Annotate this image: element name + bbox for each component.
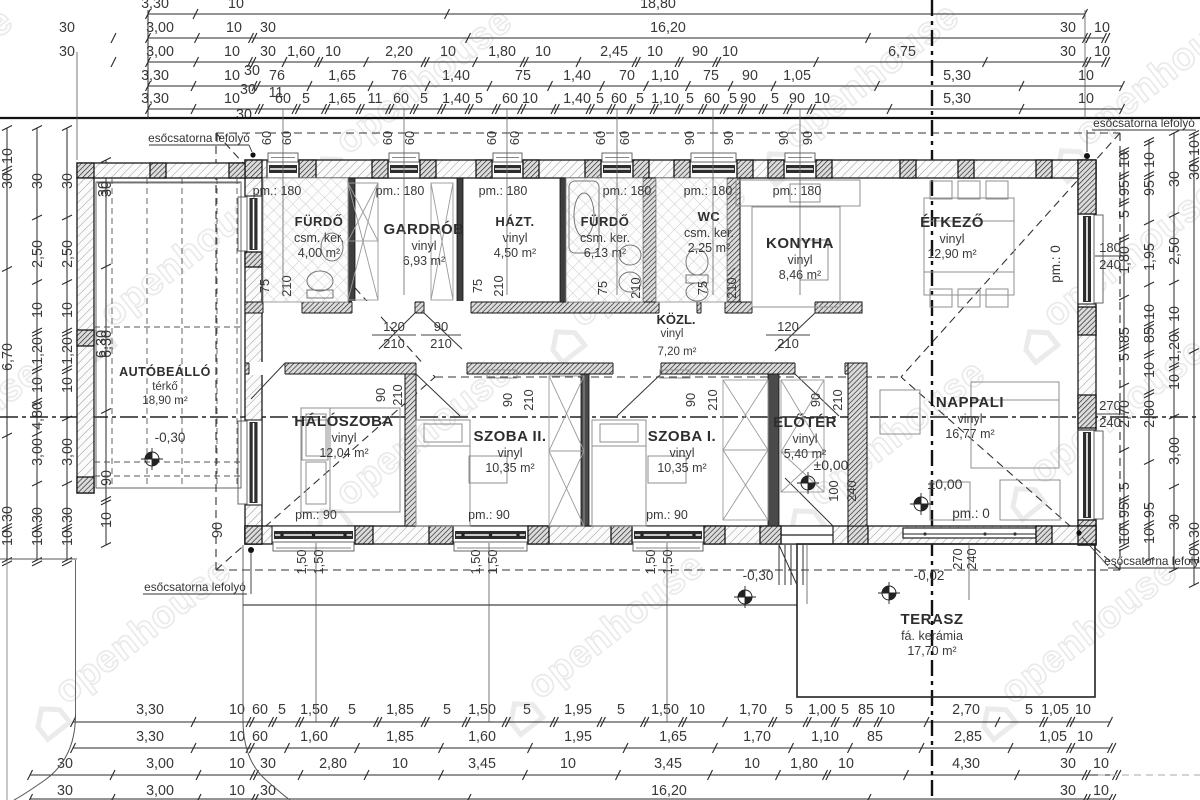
svg-text:esőcsatorna lefolyó: esőcsatorna lefolyó bbox=[148, 131, 250, 145]
svg-text:70: 70 bbox=[619, 68, 635, 84]
svg-text:90: 90 bbox=[434, 319, 448, 334]
svg-text:10: 10 bbox=[1117, 528, 1133, 544]
svg-text:3,00: 3,00 bbox=[30, 438, 46, 466]
svg-text:csm. ker.: csm. ker. bbox=[580, 231, 630, 245]
svg-text:10: 10 bbox=[1187, 140, 1200, 156]
svg-text:1,70: 1,70 bbox=[743, 729, 771, 745]
svg-text:100: 100 bbox=[826, 480, 841, 501]
svg-text:5: 5 bbox=[729, 91, 737, 107]
svg-text:pm.: 180: pm.: 180 bbox=[684, 184, 733, 198]
svg-text:10: 10 bbox=[60, 302, 76, 318]
svg-text:90: 90 bbox=[210, 522, 226, 538]
svg-text:90: 90 bbox=[692, 44, 708, 60]
svg-text:17,70 m²: 17,70 m² bbox=[907, 644, 956, 658]
svg-text:3,45: 3,45 bbox=[654, 756, 682, 772]
svg-text:vinyl: vinyl bbox=[502, 231, 527, 245]
svg-text:30: 30 bbox=[59, 44, 75, 60]
svg-text:1,95: 1,95 bbox=[564, 702, 592, 718]
svg-text:10: 10 bbox=[1075, 702, 1091, 718]
svg-text:1,20: 1,20 bbox=[30, 337, 46, 365]
svg-text:4,80: 4,80 bbox=[30, 402, 46, 430]
svg-text:3,30: 3,30 bbox=[136, 702, 164, 718]
svg-text:210: 210 bbox=[279, 275, 294, 296]
svg-text:210: 210 bbox=[383, 336, 405, 351]
svg-text:10: 10 bbox=[647, 44, 663, 60]
svg-text:90: 90 bbox=[808, 393, 823, 407]
svg-text:vinyl: vinyl bbox=[939, 232, 964, 246]
svg-text:210: 210 bbox=[430, 336, 452, 351]
svg-text:10: 10 bbox=[229, 783, 245, 799]
svg-text:10: 10 bbox=[229, 756, 245, 772]
svg-text:30: 30 bbox=[260, 756, 276, 772]
svg-text:60: 60 bbox=[393, 91, 409, 107]
svg-text:10: 10 bbox=[1077, 729, 1093, 745]
svg-text:30: 30 bbox=[244, 63, 260, 79]
svg-text:NAPPALI: NAPPALI bbox=[936, 394, 1004, 411]
svg-text:1,05: 1,05 bbox=[783, 68, 811, 84]
svg-text:30: 30 bbox=[60, 173, 76, 189]
svg-text:2,80: 2,80 bbox=[319, 756, 347, 772]
svg-text:4,00 m²: 4,00 m² bbox=[298, 246, 340, 260]
svg-text:210: 210 bbox=[724, 277, 739, 298]
svg-text:10: 10 bbox=[0, 530, 16, 546]
svg-text:210: 210 bbox=[705, 389, 720, 410]
svg-text:pm.: 180: pm.: 180 bbox=[773, 184, 822, 198]
svg-text:1,85: 1,85 bbox=[386, 729, 414, 745]
svg-text:5,30: 5,30 bbox=[943, 68, 971, 84]
svg-text:KÖZL.: KÖZL. bbox=[657, 312, 696, 327]
svg-text:75: 75 bbox=[470, 279, 485, 293]
svg-text:76: 76 bbox=[269, 68, 285, 84]
svg-text:3,30: 3,30 bbox=[136, 729, 164, 745]
svg-text:ELŐTÉR: ELŐTÉR bbox=[773, 413, 837, 431]
svg-text:90: 90 bbox=[789, 91, 805, 107]
svg-text:270: 270 bbox=[950, 548, 965, 569]
svg-text:210: 210 bbox=[628, 277, 643, 298]
svg-text:1,10: 1,10 bbox=[651, 68, 679, 84]
svg-text:1,00: 1,00 bbox=[808, 702, 836, 718]
svg-text:60: 60 bbox=[617, 131, 632, 145]
svg-text:1,80: 1,80 bbox=[488, 44, 516, 60]
svg-text:90: 90 bbox=[373, 388, 388, 402]
svg-text:210: 210 bbox=[491, 275, 506, 296]
svg-text:csm. ker.: csm. ker. bbox=[684, 226, 734, 240]
svg-text:esőcsatorna lefolyó: esőcsatorna lefolyó bbox=[1104, 554, 1200, 568]
svg-text:90: 90 bbox=[776, 131, 791, 145]
svg-text:1,50: 1,50 bbox=[300, 702, 328, 718]
svg-text:60: 60 bbox=[502, 91, 518, 107]
svg-text:10: 10 bbox=[440, 44, 456, 60]
svg-text:1,50: 1,50 bbox=[651, 702, 679, 718]
svg-text:2,20: 2,20 bbox=[385, 44, 413, 60]
svg-text:75: 75 bbox=[515, 68, 531, 84]
svg-text:5: 5 bbox=[617, 702, 625, 718]
svg-text:30: 30 bbox=[57, 783, 73, 799]
svg-text:60: 60 bbox=[380, 131, 395, 145]
svg-text:SZOBA I.: SZOBA I. bbox=[648, 428, 716, 445]
svg-text:10: 10 bbox=[1142, 362, 1158, 378]
svg-text:30: 30 bbox=[260, 20, 276, 36]
svg-text:60: 60 bbox=[279, 131, 294, 145]
svg-text:1,50: 1,50 bbox=[311, 550, 326, 575]
svg-text:1,60: 1,60 bbox=[287, 44, 315, 60]
svg-text:4,30: 4,30 bbox=[952, 756, 980, 772]
svg-text:76: 76 bbox=[391, 68, 407, 84]
svg-text:2,50: 2,50 bbox=[60, 240, 76, 268]
svg-text:1,20: 1,20 bbox=[60, 337, 76, 365]
svg-text:HÁZT.: HÁZT. bbox=[495, 214, 534, 229]
svg-text:10: 10 bbox=[224, 91, 240, 107]
svg-text:60: 60 bbox=[593, 131, 608, 145]
svg-text:5: 5 bbox=[771, 91, 779, 107]
svg-text:6,93 m²: 6,93 m² bbox=[403, 254, 445, 268]
svg-text:2,25 m²: 2,25 m² bbox=[688, 241, 730, 255]
svg-text:60: 60 bbox=[484, 131, 499, 145]
svg-text:5: 5 bbox=[348, 702, 356, 718]
svg-text:90: 90 bbox=[683, 393, 698, 407]
svg-text:18,80: 18,80 bbox=[640, 0, 676, 12]
svg-text:1,70: 1,70 bbox=[739, 702, 767, 718]
svg-text:vinyl: vinyl bbox=[957, 412, 982, 426]
svg-text:3,30: 3,30 bbox=[141, 91, 169, 107]
svg-text:1,85: 1,85 bbox=[386, 702, 414, 718]
svg-text:10,35 m²: 10,35 m² bbox=[485, 461, 534, 475]
svg-text:1,95: 1,95 bbox=[1142, 243, 1158, 271]
svg-text:10: 10 bbox=[838, 756, 854, 772]
svg-text:7,20 m²: 7,20 m² bbox=[658, 346, 697, 358]
svg-text:10: 10 bbox=[60, 377, 76, 393]
svg-text:90: 90 bbox=[721, 131, 736, 145]
svg-text:75: 75 bbox=[595, 281, 610, 295]
svg-text:30: 30 bbox=[1167, 171, 1183, 187]
svg-text:10: 10 bbox=[99, 512, 115, 528]
svg-text:10: 10 bbox=[522, 91, 538, 107]
svg-text:30: 30 bbox=[240, 82, 256, 98]
svg-text:210: 210 bbox=[777, 336, 799, 351]
svg-text:vinyl: vinyl bbox=[497, 446, 522, 460]
svg-text:pm.: 180: pm.: 180 bbox=[479, 184, 528, 198]
svg-text:10: 10 bbox=[0, 148, 16, 164]
svg-text:pm.: 0: pm.: 0 bbox=[952, 506, 990, 521]
svg-text:5,30: 5,30 bbox=[943, 91, 971, 107]
svg-text:5: 5 bbox=[302, 91, 310, 107]
svg-text:1,40: 1,40 bbox=[563, 91, 591, 107]
svg-text:11: 11 bbox=[269, 85, 284, 101]
svg-text:10: 10 bbox=[689, 702, 705, 718]
svg-text:1,65: 1,65 bbox=[328, 91, 356, 107]
svg-text:3,00: 3,00 bbox=[146, 20, 174, 36]
svg-text:pm.: 90: pm.: 90 bbox=[295, 508, 337, 522]
svg-text:10: 10 bbox=[1093, 756, 1109, 772]
svg-text:1,50: 1,50 bbox=[468, 702, 496, 718]
svg-text:1,50: 1,50 bbox=[660, 550, 675, 575]
svg-text:5: 5 bbox=[420, 91, 428, 107]
svg-text:10: 10 bbox=[744, 756, 760, 772]
svg-text:csm. ker.: csm. ker. bbox=[294, 231, 344, 245]
svg-text:TERASZ: TERASZ bbox=[901, 611, 964, 628]
svg-text:1,40: 1,40 bbox=[563, 68, 591, 84]
svg-text:3,00: 3,00 bbox=[1167, 437, 1183, 465]
svg-text:16,20: 16,20 bbox=[651, 783, 687, 799]
svg-text:FÜRDŐ: FÜRDŐ bbox=[295, 214, 344, 229]
svg-text:210: 210 bbox=[830, 389, 845, 410]
svg-text:10: 10 bbox=[722, 44, 738, 60]
svg-text:10: 10 bbox=[1142, 528, 1158, 544]
svg-text:-0,02: -0,02 bbox=[914, 568, 945, 583]
svg-text:vinyl: vinyl bbox=[792, 432, 817, 446]
svg-text:1,50: 1,50 bbox=[643, 550, 658, 575]
svg-text:1,50: 1,50 bbox=[468, 550, 483, 575]
svg-text:10: 10 bbox=[325, 44, 341, 60]
svg-text:2,50: 2,50 bbox=[1167, 237, 1183, 265]
svg-text:60: 60 bbox=[507, 131, 522, 145]
svg-text:30: 30 bbox=[260, 44, 276, 60]
svg-text:30: 30 bbox=[1060, 783, 1076, 799]
svg-text:30: 30 bbox=[1060, 20, 1076, 36]
svg-text:5: 5 bbox=[841, 702, 849, 718]
svg-text:240: 240 bbox=[844, 480, 859, 501]
svg-text:75: 75 bbox=[695, 281, 710, 295]
svg-text:±0,00: ±0,00 bbox=[814, 457, 849, 473]
svg-text:10: 10 bbox=[1167, 374, 1183, 390]
svg-text:AUTÓBEÁLLÓ: AUTÓBEÁLLÓ bbox=[119, 364, 211, 379]
svg-text:5: 5 bbox=[636, 91, 644, 107]
svg-text:1,05: 1,05 bbox=[1039, 729, 1067, 745]
svg-text:85: 85 bbox=[1117, 327, 1133, 343]
svg-text:18,90 m²: 18,90 m² bbox=[142, 395, 188, 407]
svg-text:120: 120 bbox=[777, 319, 799, 334]
svg-text:10: 10 bbox=[1078, 68, 1094, 84]
svg-text:30: 30 bbox=[236, 107, 252, 123]
svg-text:10: 10 bbox=[560, 756, 576, 772]
svg-text:30: 30 bbox=[59, 20, 75, 36]
svg-text:270: 270 bbox=[1099, 398, 1121, 413]
svg-text:90: 90 bbox=[800, 131, 815, 145]
svg-text:5: 5 bbox=[1117, 353, 1133, 361]
svg-text:±0,00: ±0,00 bbox=[928, 476, 963, 492]
svg-text:10: 10 bbox=[30, 530, 46, 546]
svg-text:240: 240 bbox=[1099, 415, 1121, 430]
svg-text:1,65: 1,65 bbox=[328, 68, 356, 84]
svg-text:240: 240 bbox=[1099, 257, 1121, 272]
svg-text:10: 10 bbox=[30, 377, 46, 393]
svg-text:10: 10 bbox=[1142, 152, 1158, 168]
svg-text:210: 210 bbox=[521, 389, 536, 410]
svg-text:vinyl: vinyl bbox=[411, 239, 436, 253]
svg-text:5: 5 bbox=[1117, 482, 1133, 490]
svg-text:95: 95 bbox=[1117, 502, 1133, 518]
svg-text:60: 60 bbox=[252, 702, 268, 718]
svg-text:180: 180 bbox=[1099, 240, 1121, 255]
svg-text:210: 210 bbox=[390, 384, 405, 405]
svg-text:30: 30 bbox=[1167, 514, 1183, 530]
svg-text:10: 10 bbox=[1167, 306, 1183, 322]
svg-text:pm.: 180: pm.: 180 bbox=[376, 184, 425, 198]
svg-text:85: 85 bbox=[867, 729, 883, 745]
svg-text:60: 60 bbox=[704, 91, 720, 107]
svg-text:5: 5 bbox=[1117, 210, 1133, 218]
svg-text:5: 5 bbox=[278, 702, 286, 718]
svg-text:5: 5 bbox=[596, 91, 604, 107]
svg-text:10: 10 bbox=[60, 530, 76, 546]
svg-text:12,90 m²: 12,90 m² bbox=[927, 247, 976, 261]
svg-text:10: 10 bbox=[30, 302, 46, 318]
svg-text:1,20: 1,20 bbox=[1167, 334, 1183, 362]
svg-text:5: 5 bbox=[475, 91, 483, 107]
svg-text:16,20: 16,20 bbox=[650, 20, 686, 36]
svg-text:1,80: 1,80 bbox=[790, 756, 818, 772]
svg-text:16,77 m²: 16,77 m² bbox=[945, 427, 994, 441]
svg-text:5: 5 bbox=[443, 702, 451, 718]
svg-text:pm.: 180: pm.: 180 bbox=[603, 184, 652, 198]
svg-text:120: 120 bbox=[383, 319, 405, 334]
svg-text:FÜRDŐ: FÜRDŐ bbox=[581, 214, 630, 229]
svg-text:1,10: 1,10 bbox=[651, 91, 679, 107]
svg-text:95: 95 bbox=[1142, 502, 1158, 518]
svg-text:85: 85 bbox=[1142, 327, 1158, 343]
svg-text:5: 5 bbox=[1025, 702, 1033, 718]
svg-text:30: 30 bbox=[1060, 756, 1076, 772]
svg-text:30: 30 bbox=[0, 506, 16, 522]
svg-text:10: 10 bbox=[1142, 304, 1158, 320]
svg-text:SZOBA II.: SZOBA II. bbox=[473, 428, 546, 445]
svg-text:12,04 m²: 12,04 m² bbox=[319, 446, 368, 460]
svg-text:10: 10 bbox=[1094, 44, 1110, 60]
svg-text:30: 30 bbox=[260, 783, 276, 799]
svg-text:10: 10 bbox=[392, 756, 408, 772]
svg-text:90: 90 bbox=[742, 68, 758, 84]
svg-text:-0,30: -0,30 bbox=[743, 568, 774, 583]
svg-text:10: 10 bbox=[229, 729, 245, 745]
svg-text:2,70: 2,70 bbox=[952, 702, 980, 718]
svg-text:-0,30: -0,30 bbox=[155, 430, 186, 445]
svg-text:2,80: 2,80 bbox=[1142, 400, 1158, 428]
svg-text:30: 30 bbox=[60, 507, 76, 523]
svg-text:5: 5 bbox=[785, 702, 793, 718]
svg-text:4,50 m²: 4,50 m² bbox=[494, 246, 536, 260]
svg-text:2,50: 2,50 bbox=[30, 240, 46, 268]
svg-text:1,50: 1,50 bbox=[485, 550, 500, 575]
svg-text:10: 10 bbox=[879, 702, 895, 718]
svg-text:2,45: 2,45 bbox=[600, 44, 628, 60]
svg-text:1,50: 1,50 bbox=[294, 550, 309, 575]
svg-text:5: 5 bbox=[686, 91, 694, 107]
svg-text:6,30: 6,30 bbox=[94, 330, 110, 358]
svg-text:30: 30 bbox=[1187, 522, 1200, 538]
svg-text:1,10: 1,10 bbox=[811, 729, 839, 745]
svg-text:75: 75 bbox=[257, 279, 272, 293]
svg-text:3,45: 3,45 bbox=[468, 756, 496, 772]
svg-text:1,40: 1,40 bbox=[442, 91, 470, 107]
svg-text:pm.: 0: pm.: 0 bbox=[1048, 245, 1063, 283]
svg-text:10: 10 bbox=[224, 68, 240, 84]
svg-text:esőcsatorna lefolyó: esőcsatorna lefolyó bbox=[1093, 116, 1195, 130]
svg-text:30: 30 bbox=[30, 507, 46, 523]
svg-text:10: 10 bbox=[814, 91, 830, 107]
svg-text:1,65: 1,65 bbox=[659, 729, 687, 745]
svg-text:pm.: 90: pm.: 90 bbox=[468, 508, 510, 522]
svg-text:30: 30 bbox=[0, 173, 16, 189]
svg-text:1,95: 1,95 bbox=[564, 729, 592, 745]
svg-text:95: 95 bbox=[1117, 180, 1133, 196]
svg-text:vinyl: vinyl bbox=[331, 431, 356, 445]
svg-text:vinyl: vinyl bbox=[660, 328, 683, 340]
svg-text:95: 95 bbox=[1142, 180, 1158, 196]
svg-text:6,13 m²: 6,13 m² bbox=[584, 246, 626, 260]
svg-text:pm.: 180: pm.: 180 bbox=[253, 184, 302, 198]
svg-text:3,00: 3,00 bbox=[146, 44, 174, 60]
svg-text:11: 11 bbox=[368, 91, 383, 107]
svg-text:90: 90 bbox=[99, 470, 115, 486]
svg-text:75: 75 bbox=[703, 68, 719, 84]
svg-text:1,05: 1,05 bbox=[1041, 702, 1069, 718]
svg-text:10: 10 bbox=[1093, 783, 1109, 799]
svg-text:6,70: 6,70 bbox=[0, 343, 16, 371]
svg-text:3,00: 3,00 bbox=[60, 438, 76, 466]
svg-text:10: 10 bbox=[224, 44, 240, 60]
svg-text:HÁLÓSZOBA: HÁLÓSZOBA bbox=[294, 412, 394, 430]
svg-text:3,30: 3,30 bbox=[141, 0, 169, 12]
svg-text:90: 90 bbox=[740, 91, 756, 107]
svg-text:90: 90 bbox=[500, 393, 515, 407]
svg-text:GARDRÓB: GARDRÓB bbox=[384, 220, 465, 238]
svg-text:85: 85 bbox=[858, 702, 874, 718]
svg-text:1,40: 1,40 bbox=[442, 68, 470, 84]
svg-text:10,35 m²: 10,35 m² bbox=[657, 461, 706, 475]
svg-text:10: 10 bbox=[1078, 91, 1094, 107]
svg-text:10: 10 bbox=[1117, 152, 1133, 168]
svg-text:60: 60 bbox=[252, 729, 268, 745]
svg-text:vinyl: vinyl bbox=[669, 446, 694, 460]
svg-text:30: 30 bbox=[96, 181, 112, 197]
svg-text:90: 90 bbox=[682, 131, 697, 145]
svg-text:3,00: 3,00 bbox=[146, 783, 174, 799]
svg-text:2,85: 2,85 bbox=[954, 729, 982, 745]
svg-text:3,30: 3,30 bbox=[141, 68, 169, 84]
svg-text:60: 60 bbox=[259, 131, 274, 145]
svg-text:30: 30 bbox=[30, 173, 46, 189]
svg-text:1,60: 1,60 bbox=[300, 729, 328, 745]
svg-text:esőcsatorna lefolyó: esőcsatorna lefolyó bbox=[144, 580, 246, 594]
svg-text:ÉTKEZŐ: ÉTKEZŐ bbox=[920, 213, 984, 231]
svg-text:WC: WC bbox=[698, 209, 721, 224]
svg-text:10: 10 bbox=[226, 20, 242, 36]
svg-text:10: 10 bbox=[1094, 20, 1110, 36]
svg-text:10: 10 bbox=[228, 0, 244, 12]
svg-text:térkő: térkő bbox=[152, 381, 178, 393]
svg-text:60: 60 bbox=[611, 91, 627, 107]
svg-text:5: 5 bbox=[523, 702, 531, 718]
svg-text:30: 30 bbox=[1060, 44, 1076, 60]
svg-text:240: 240 bbox=[964, 548, 979, 569]
svg-text:3,00: 3,00 bbox=[146, 756, 174, 772]
svg-text:pm.: 90: pm.: 90 bbox=[646, 508, 688, 522]
svg-text:30: 30 bbox=[1187, 164, 1200, 180]
svg-text:1,60: 1,60 bbox=[468, 729, 496, 745]
svg-text:10: 10 bbox=[535, 44, 551, 60]
svg-text:6,75: 6,75 bbox=[888, 44, 916, 60]
svg-text:fá. kerámia: fá. kerámia bbox=[901, 629, 963, 643]
